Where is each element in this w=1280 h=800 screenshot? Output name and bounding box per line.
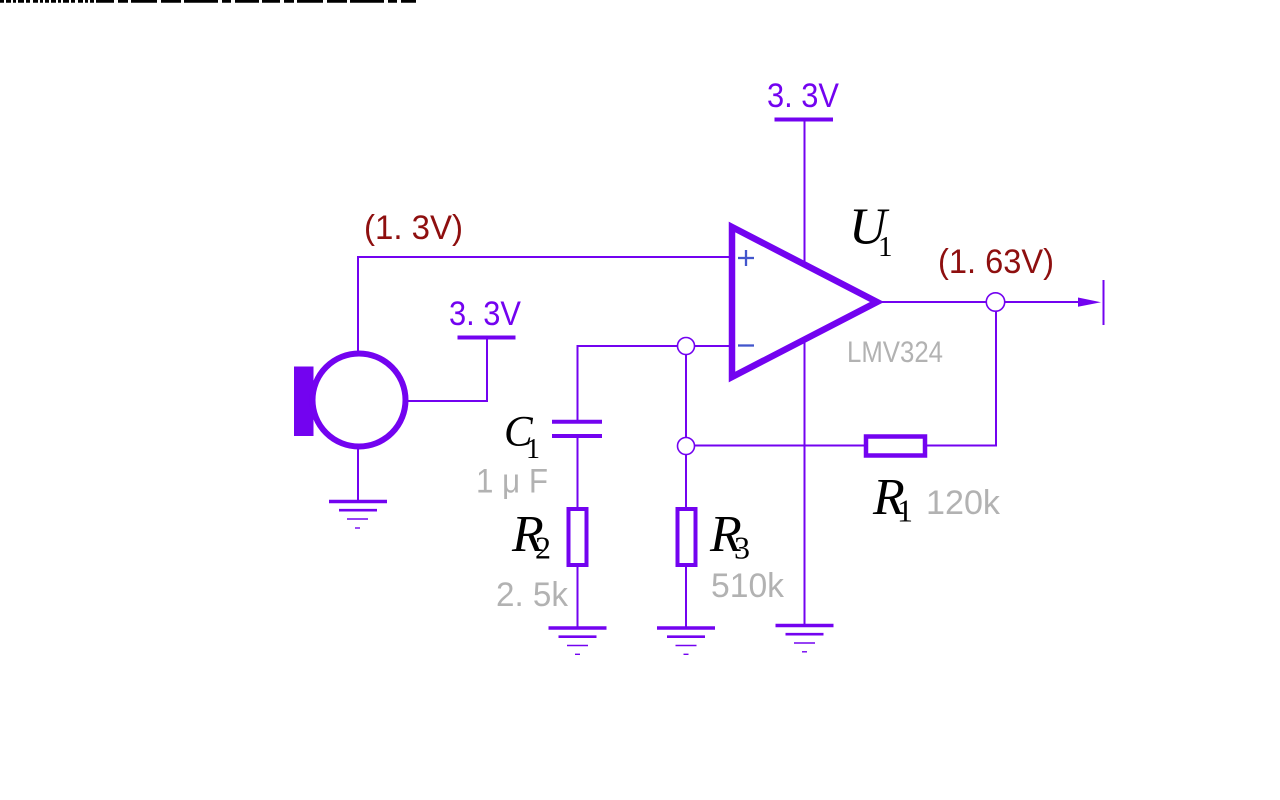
svg-text:1: 1: [878, 231, 893, 263]
svg-text:(1. 3V): (1. 3V): [364, 209, 463, 247]
svg-text:120k: 120k: [926, 484, 1001, 522]
svg-text:LMV324: LMV324: [847, 336, 943, 369]
svg-text:3. 3V: 3. 3V: [449, 295, 521, 333]
svg-text:510k: 510k: [711, 567, 785, 605]
svg-text:3: 3: [734, 530, 750, 566]
svg-text:2. 5k: 2. 5k: [496, 576, 569, 614]
svg-text:1: 1: [897, 493, 913, 529]
svg-text:3. 3V: 3. 3V: [767, 77, 839, 115]
svg-text:1 μ F: 1 μ F: [476, 463, 548, 501]
svg-text:(1. 63V): (1. 63V): [938, 243, 1054, 281]
svg-text:1: 1: [526, 434, 540, 465]
svg-text:2: 2: [535, 530, 551, 566]
